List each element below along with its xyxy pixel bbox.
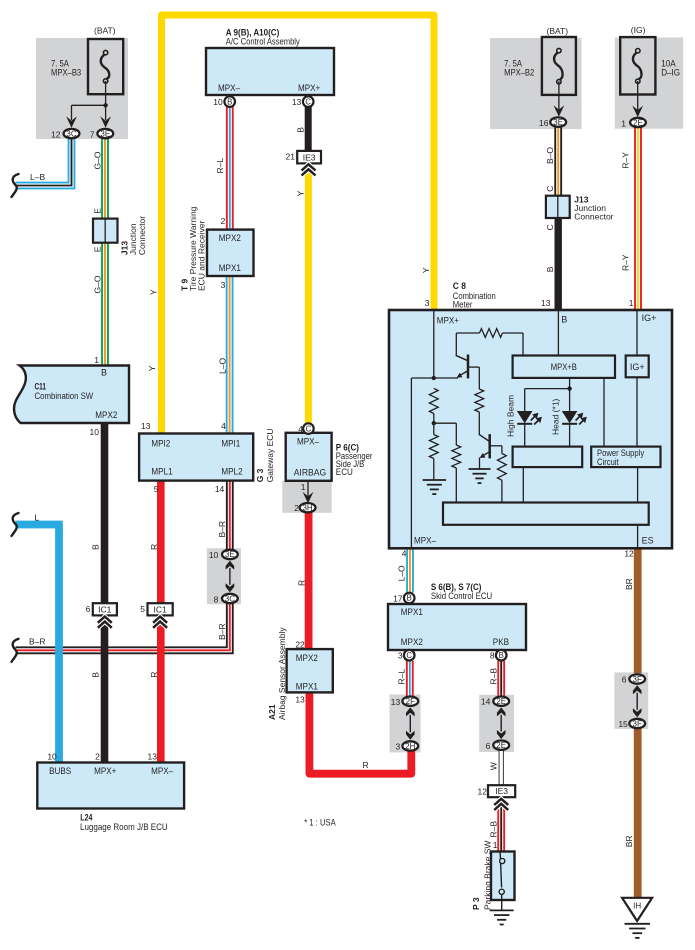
svg-text:B: B [545,266,555,272]
svg-text:4: 4 [402,549,407,559]
svg-text:3F: 3F [633,719,642,728]
svg-text:AIRBAG: AIRBAG [294,468,327,478]
svg-text:C: C [306,424,312,433]
svg-text:BR: BR [624,578,634,590]
svg-text:ECU: ECU [336,467,353,477]
svg-text:(BAT): (BAT) [94,26,116,36]
svg-text:MPX–B2: MPX–B2 [504,68,534,78]
svg-text:R–B: R–B [489,821,499,838]
svg-text:2: 2 [294,503,299,513]
svg-text:L: L [35,512,40,522]
svg-text:10: 10 [90,427,100,437]
svg-text:MPX–: MPX– [297,437,319,447]
svg-text:B: B [561,315,567,325]
svg-text:* 1 : USA: * 1 : USA [304,817,336,827]
svg-text:13: 13 [141,421,151,431]
svg-text:P 3: P 3 [471,897,481,910]
svg-text:2: 2 [221,216,226,226]
svg-text:E: E [93,208,103,214]
svg-text:13: 13 [148,752,158,762]
svg-text:BUBS: BUBS [49,766,71,776]
svg-text:MPX–: MPX– [414,536,436,546]
svg-text:Parking Brake SW: Parking Brake SW [482,841,492,910]
svg-text:14: 14 [481,697,491,707]
svg-text:A21: A21 [267,704,277,720]
svg-text:5: 5 [140,604,145,614]
svg-text:B: B [296,127,306,133]
svg-text:3: 3 [398,651,403,661]
svg-text:MPX–B3: MPX–B3 [51,68,81,78]
svg-text:10: 10 [209,550,219,560]
svg-text:6: 6 [86,604,91,614]
svg-text:C 8: C 8 [453,281,466,291]
svg-text:IH: IH [633,902,641,911]
svg-text:C: C [545,224,555,230]
svg-text:12: 12 [51,129,61,139]
svg-text:MPX2: MPX2 [95,410,117,420]
svg-text:MPL2: MPL2 [221,467,242,477]
svg-text:3: 3 [425,298,430,308]
svg-text:(IG): (IG) [631,25,646,35]
svg-text:MPX–: MPX– [151,766,173,776]
svg-text:B: B [101,368,107,378]
svg-text:MPX2: MPX2 [401,637,423,647]
svg-text:12: 12 [478,787,488,797]
svg-text:IG+: IG+ [630,362,645,372]
svg-text:B: B [91,672,101,678]
svg-text:3: 3 [221,280,226,290]
svg-text:12: 12 [624,549,634,559]
svg-text:B: B [227,97,232,106]
svg-text:MPX+B: MPX+B [551,362,577,372]
svg-text:L24: L24 [80,813,92,823]
svg-text:Airbag Sensor Assembly: Airbag Sensor Assembly [277,627,287,720]
svg-text:R: R [149,672,159,678]
svg-text:L–O: L–O [218,358,228,374]
svg-text:ECU and Receiver: ECU and Receiver [197,220,207,291]
svg-text:3E: 3E [100,129,110,138]
svg-text:B: B [499,651,504,660]
svg-text:15: 15 [618,719,628,729]
svg-text:MPX2: MPX2 [219,233,241,243]
svg-text:2: 2 [95,752,100,762]
svg-text:R: R [363,760,369,770]
svg-text:Gateway ECU: Gateway ECU [265,428,275,482]
svg-text:High Beam: High Beam [506,395,516,437]
svg-text:2E: 2E [633,118,643,127]
svg-text:B–R: B–R [29,636,46,646]
svg-text:22: 22 [295,640,305,650]
svg-text:3H: 3H [302,504,312,513]
svg-text:R: R [149,544,159,550]
svg-text:MPL1: MPL1 [151,467,172,477]
svg-text:G 3: G 3 [255,468,265,482]
svg-text:Y: Y [147,365,157,371]
svg-text:17: 17 [393,594,403,604]
svg-text:IE3: IE3 [303,152,316,162]
svg-text:R: R [296,580,306,586]
svg-text:10: 10 [213,97,223,107]
svg-text:Luggage Room J/B ECU: Luggage Room J/B ECU [80,822,168,832]
svg-text:W: W [489,762,499,770]
svg-text:C: C [406,651,412,660]
svg-text:Y: Y [296,190,306,196]
svg-text:13: 13 [295,694,305,704]
svg-text:4: 4 [221,421,226,431]
svg-text:BR: BR [624,835,634,847]
svg-text:8: 8 [214,594,219,604]
svg-text:E: E [93,246,103,252]
svg-text:3C: 3C [66,129,76,138]
svg-text:B–O: B–O [545,147,555,164]
svg-text:Connector: Connector [574,212,613,222]
svg-text:16: 16 [539,118,549,128]
svg-text:B–R: B–R [217,521,227,538]
svg-text:A/C Control Assembly: A/C Control Assembly [226,36,300,46]
svg-text:4: 4 [298,424,303,434]
svg-text:R–Y: R–Y [621,152,631,169]
svg-text:Head (*1): Head (*1) [551,398,561,435]
svg-text:2H: 2H [405,742,415,751]
svg-text:MPX+: MPX+ [437,316,459,326]
svg-text:C: C [545,186,555,192]
svg-text:L–B: L–B [30,172,45,182]
svg-text:G–O: G–O [93,275,103,293]
svg-text:6: 6 [486,741,491,751]
svg-text:13: 13 [292,97,302,107]
svg-text:1: 1 [301,482,306,492]
svg-text:MPX1: MPX1 [219,263,241,273]
svg-text:MPX+: MPX+ [298,83,320,93]
svg-text:R–L: R–L [215,158,225,174]
svg-text:IG+: IG+ [642,313,657,323]
svg-text:3F: 3F [633,675,642,684]
svg-text:10: 10 [47,752,57,762]
svg-text:3C: 3C [225,594,235,603]
svg-text:B–R: B–R [217,623,227,640]
svg-text:C: C [305,97,311,106]
svg-text:Combination SW: Combination SW [35,391,94,401]
svg-text:B: B [91,544,101,550]
svg-text:IC1: IC1 [98,604,112,614]
svg-text:Circuit: Circuit [597,457,619,467]
svg-text:2E: 2E [496,741,506,750]
svg-text:Y: Y [421,267,431,273]
svg-text:MPX+: MPX+ [94,766,116,776]
svg-text:MPX1: MPX1 [401,607,423,617]
svg-text:Y: Y [149,289,159,295]
svg-text:C11: C11 [35,381,47,391]
svg-text:PKB: PKB [493,637,509,647]
svg-text:7: 7 [90,129,95,139]
svg-text:3E: 3E [553,118,563,127]
svg-text:R–B: R–B [489,668,499,685]
svg-text:14: 14 [215,484,225,494]
svg-text:MPX–: MPX– [218,83,240,93]
svg-text:G–O: G–O [93,151,103,169]
svg-text:13: 13 [541,298,551,308]
svg-text:3: 3 [395,742,400,752]
svg-text:IC1: IC1 [153,604,167,614]
svg-text:5: 5 [154,484,159,494]
svg-text:B: B [407,594,412,603]
svg-text:8: 8 [490,651,495,661]
svg-text:ES: ES [642,536,654,546]
svg-text:D–IG: D–IG [661,68,680,78]
svg-text:(BAT): (BAT) [547,26,569,36]
svg-text:R–Y: R–Y [621,254,631,271]
svg-text:Skid Control ECU: Skid Control ECU [431,591,492,601]
svg-text:2E: 2E [496,697,506,706]
svg-text:6: 6 [622,675,627,685]
svg-text:1: 1 [621,119,626,129]
svg-text:L–O: L–O [396,565,406,581]
svg-text:MPX1: MPX1 [296,682,318,692]
svg-text:1: 1 [493,840,498,850]
svg-text:1: 1 [629,298,634,308]
svg-text:1: 1 [94,355,99,365]
svg-text:MPI2: MPI2 [151,439,170,449]
svg-text:3E: 3E [225,550,235,559]
svg-text:IE3: IE3 [495,786,508,796]
svg-text:2F: 2F [406,697,415,706]
svg-text:R–L: R–L [396,669,406,685]
svg-text:MPI1: MPI1 [221,439,240,449]
svg-text:MPX2: MPX2 [296,653,318,663]
svg-text:21: 21 [286,152,296,162]
svg-text:Connector: Connector [137,216,147,255]
svg-text:Meter: Meter [453,299,473,309]
svg-text:13: 13 [391,697,401,707]
